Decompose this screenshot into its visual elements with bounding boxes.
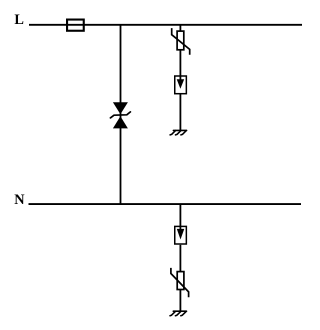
TVS bidirectional diode D1 bar [110, 112, 130, 118]
wire middle vertical L-to-N [120, 25, 122, 204]
varistor RV2 body [177, 272, 184, 290]
SPD box U1 [175, 76, 187, 94]
TVS bidirectional diode D1 bottom triangle [113, 116, 128, 128]
ground bottom-right [170, 311, 187, 316]
wire bottom-right branch upper segment [179, 204, 181, 229]
fuse F1 [67, 20, 84, 31]
wire box-to-ground segment [179, 94, 181, 131]
ground top-right [170, 130, 187, 135]
svg-text:L: L [14, 12, 24, 28]
varistor RV1 body [177, 31, 184, 50]
SPD box U1 triangle [177, 79, 185, 89]
SPD box U2 triangle [177, 229, 185, 240]
SPD box U2 [175, 226, 187, 244]
varistor RV1 diagonal [172, 28, 190, 55]
wire varistor-to-box segment [179, 50, 181, 80]
varistor RV2 diagonal [171, 268, 189, 297]
svg-text:N: N [14, 192, 25, 208]
wire box-to-varistor segment [179, 245, 181, 272]
wire L line [29, 24, 302, 26]
wire varistor-to-ground segment [179, 290, 181, 312]
wire N line [29, 203, 302, 205]
TVS bidirectional diode D1 top triangle [113, 102, 128, 114]
wire top-right branch upper segment [179, 25, 181, 32]
